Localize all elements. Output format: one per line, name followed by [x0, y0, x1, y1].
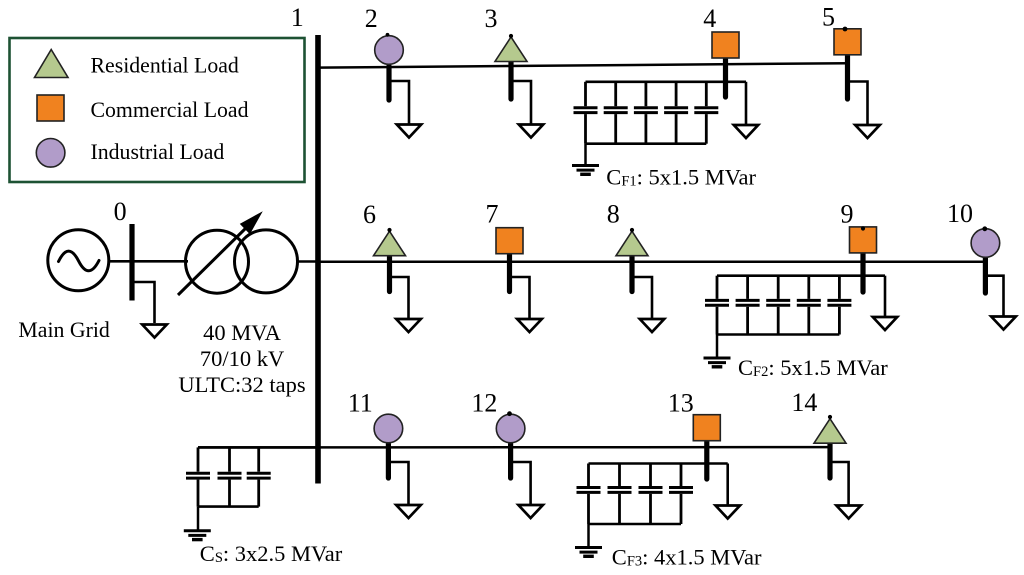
ground node 5 symbol: [855, 125, 880, 138]
node 11 stub: [386, 444, 391, 478]
capacitor CF1 unit 1: [574, 82, 598, 144]
ground CF2 earth symbol: [704, 358, 731, 367]
svg-text:5: 5: [822, 3, 835, 32]
ground CS stub: [197, 507, 200, 531]
legend box: [10, 38, 305, 182]
legend industrial text: [91, 140, 225, 164]
label CS value: [200, 541, 343, 566]
label CF3 value: [612, 545, 762, 570]
wire transformer to bus 1: [298, 260, 318, 263]
node 6 residential load symbol: [374, 231, 406, 256]
bus 0: [129, 224, 134, 301]
ground node 10 wire: [985, 276, 1003, 316]
node 14 stub: [827, 444, 832, 478]
node 10 label: [947, 199, 973, 228]
node 14 residential load symbol: [814, 419, 846, 444]
ground node 11 wire: [388, 462, 408, 504]
node 11 industrial load symbol: [374, 414, 403, 443]
label CF1 value: [606, 165, 756, 190]
main grid source G: [48, 230, 109, 291]
svg-text:3: 3: [485, 4, 498, 33]
node 2 stub: [386, 66, 391, 100]
svg-text:1: 1: [291, 3, 304, 32]
capacitor CF2 unit 4: [797, 276, 821, 335]
svg-text:Commercial Load: Commercial Load: [91, 98, 249, 122]
ground node 9 symbol: [873, 317, 897, 330]
ground node 14 wire: [830, 462, 849, 505]
ground node 11 symbol: [396, 505, 421, 518]
node 13 stub: [704, 441, 709, 479]
capacitor bank CF2 bottom rail: [717, 333, 839, 336]
bus 1 (main bus): [315, 35, 321, 484]
capacitor bank CF3 bottom rail: [589, 523, 682, 526]
capacitor bank CS bottom rail: [198, 505, 259, 508]
svg-text:2: 2: [365, 4, 378, 33]
node 2 industrial load symbol: [375, 36, 404, 65]
capacitor CF1 unit 4: [664, 82, 688, 144]
ground node 4 symbol: [734, 125, 758, 138]
ground node 7 wire: [510, 277, 530, 318]
ground node 2 wire: [389, 81, 409, 124]
node 6 label: [363, 200, 376, 229]
svg-text:8: 8: [607, 200, 620, 229]
svg-text:6: 6: [363, 200, 376, 229]
node 1 label: [291, 3, 304, 32]
node 12 stub: [508, 444, 513, 478]
node 3 stub: [508, 62, 513, 99]
node 13 commercial load symbol: [693, 415, 720, 441]
svg-text:Main Grid: Main Grid: [18, 318, 110, 342]
svg-text:CF2: 5x1.5 MVar: CF2: 5x1.5 MVar: [738, 355, 888, 380]
capacitor CF1 unit 2: [604, 82, 628, 144]
ground CF1 earth symbol: [572, 166, 599, 175]
node 4 stub: [723, 58, 728, 97]
svg-text:CS: 3x2.5 MVar: CS: 3x2.5 MVar: [200, 541, 343, 566]
capacitor CF3 unit 4: [669, 464, 693, 525]
node 13 label: [668, 389, 694, 418]
node 7 stub: [507, 254, 512, 292]
node 9 stub: [860, 253, 865, 292]
transformer value label: [178, 320, 305, 397]
capacitor CF2 unit 5: [827, 276, 851, 335]
capacitor CF2 unit 2: [736, 276, 760, 335]
ground CF1 stub: [584, 144, 587, 166]
node 9 label: [841, 200, 854, 229]
node 10 connection dot: [982, 226, 987, 231]
svg-text:70/10 kV: 70/10 kV: [200, 346, 284, 371]
svg-text:40 MVA: 40 MVA: [203, 320, 281, 345]
ground node 12 symbol: [518, 505, 543, 518]
node 9 connection dot: [861, 226, 865, 230]
ground CF2 stub: [716, 335, 719, 359]
ground node 6 wire: [390, 277, 409, 318]
node 4 label: [703, 4, 716, 33]
ground CF3 earth symbol: [575, 548, 602, 557]
node 3 label: [485, 4, 498, 33]
ground bus 0 symbol: [142, 325, 167, 338]
capacitor CS unit 1: [186, 447, 210, 506]
ground CS earth symbol: [184, 531, 211, 540]
ground node 8 symbol: [640, 319, 664, 332]
capacitor CF1 unit 3: [634, 82, 658, 144]
svg-text:10: 10: [947, 199, 973, 228]
capacitor bank CF1 bottom rail: [586, 142, 707, 145]
node 10 stub: [983, 258, 988, 293]
capacitor bank CF2 top rail: [717, 274, 885, 277]
svg-text:0: 0: [114, 197, 127, 226]
ground node 3 symbol: [519, 125, 543, 138]
node 14 label: [791, 388, 817, 417]
capacitor CF3 unit 3: [639, 464, 663, 525]
ground node 12 wire: [511, 462, 531, 504]
node 5 stub: [845, 55, 850, 99]
ground CF1 arrow wire: [745, 82, 748, 124]
ground CF3 stub: [587, 524, 590, 548]
wire source to bus 0: [108, 260, 188, 263]
node 7 label: [486, 200, 499, 229]
ground node 6 symbol: [396, 319, 421, 332]
middle feeder wire: [318, 261, 985, 264]
svg-text:9: 9: [841, 200, 854, 229]
svg-text:Residential Load: Residential Load: [91, 53, 239, 77]
legend commercial symbol: [37, 95, 64, 121]
ground CF2 arrow wire: [884, 276, 887, 318]
svg-text:12: 12: [471, 389, 497, 418]
node 10 industrial load symbol: [971, 229, 1000, 258]
capacitor CF3 unit 1: [577, 464, 601, 525]
ground node 2 symbol: [397, 125, 421, 138]
node 8 label: [607, 200, 620, 229]
node 12 connection dot: [507, 411, 512, 416]
node 3 residential load symbol: [495, 37, 527, 62]
node 5 label: [822, 3, 835, 32]
ground node 8 wire: [632, 277, 652, 318]
node 2 label: [365, 4, 378, 33]
node 9 commercial load symbol: [850, 227, 877, 253]
node 11 label: [348, 389, 373, 418]
top feeder wire: [318, 63, 848, 67]
ground node 5 wire: [848, 82, 868, 125]
ground CF3 arrow wire: [726, 464, 729, 505]
node 12 label: [471, 389, 497, 418]
node 8 residential load symbol: [616, 231, 648, 256]
capacitor bank CF1 top rail: [586, 81, 747, 84]
node 8 connection dot: [630, 228, 634, 232]
ground bus 0 wire: [133, 282, 155, 323]
capacitor bank CS top rail: [198, 446, 318, 449]
legend residential symbol: [35, 50, 69, 78]
capacitor CF1 unit 5: [694, 82, 718, 144]
label CF2 value: [738, 355, 888, 380]
svg-text:11: 11: [348, 389, 373, 418]
node 7 commercial load symbol: [496, 228, 523, 254]
legend residential text: [91, 53, 239, 77]
svg-text:CF1: 5x1.5 MVar: CF1: 5x1.5 MVar: [606, 165, 756, 190]
capacitor CS unit 3: [247, 447, 271, 506]
node 6 stub: [387, 256, 392, 292]
label Main Grid: [18, 318, 110, 342]
svg-text:CF3: 4x1.5 MVar: CF3: 4x1.5 MVar: [612, 545, 762, 570]
ground node 14 symbol: [836, 506, 861, 519]
capacitor CF3 unit 2: [608, 464, 632, 525]
node 6 connection dot: [387, 228, 391, 232]
svg-text:4: 4: [703, 4, 716, 33]
ground node 7 symbol: [517, 319, 542, 332]
capacitor CS unit 2: [218, 447, 242, 506]
node 0 label: [114, 197, 127, 226]
svg-text:ULTC:32 taps: ULTC:32 taps: [178, 372, 305, 397]
svg-text:Industrial Load: Industrial Load: [91, 140, 225, 164]
node 2 connection dot: [386, 33, 390, 37]
node 14 connection dot: [828, 415, 832, 419]
capacitor CF2 unit 1: [705, 276, 729, 335]
node 12 industrial load symbol: [496, 414, 525, 443]
svg-text:7: 7: [486, 200, 499, 229]
node 4 commercial load symbol: [712, 32, 739, 58]
node 5 commercial load symbol: [834, 29, 861, 55]
transformer T1 ULTC: [178, 213, 298, 296]
ground node 13 symbol: [716, 506, 741, 519]
legend industrial symbol: [36, 139, 65, 168]
ground node 10 symbol: [991, 317, 1016, 330]
capacitor bank CF3 top rail: [589, 462, 728, 465]
ground node 3 wire: [511, 81, 531, 124]
node 3 connection dot: [509, 34, 513, 38]
svg-text:14: 14: [791, 388, 817, 417]
capacitor CF2 unit 3: [766, 276, 790, 335]
node 5 connection dot: [843, 27, 848, 32]
svg-text:13: 13: [668, 389, 694, 418]
bottom feeder wire: [198, 446, 830, 449]
node 8 stub: [629, 256, 634, 292]
legend commercial text: [91, 98, 249, 122]
